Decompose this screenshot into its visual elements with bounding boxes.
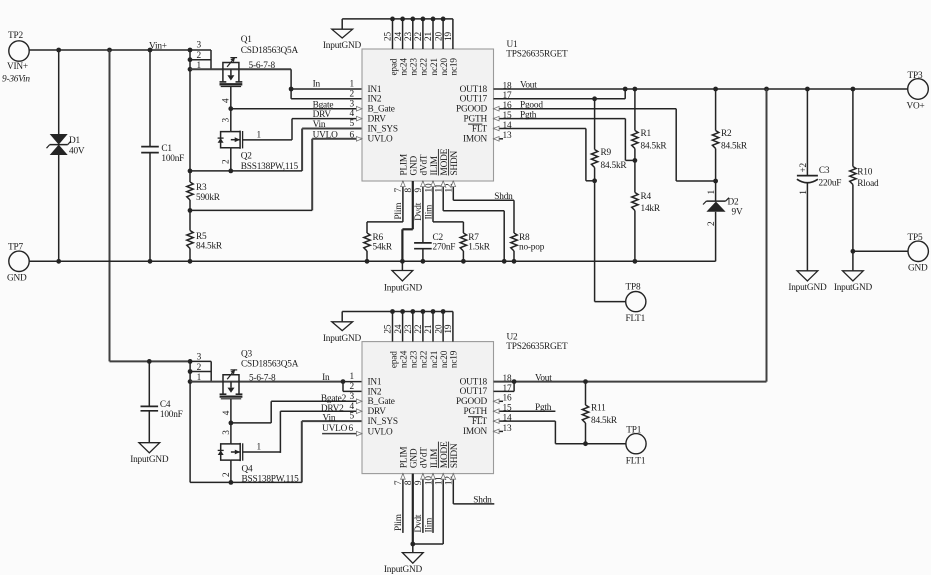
svg-text:SHDN: SHDN: [450, 443, 460, 468]
resistor R1 84.5kR: [632, 89, 668, 160]
svg-text:9: 9: [414, 188, 424, 193]
U2 top pins 25-19 rail to InputGND: [342, 309, 453, 342]
svg-text:TP8: TP8: [626, 282, 641, 292]
svg-text:nc24: nc24: [399, 58, 409, 76]
svg-text:17: 17: [503, 384, 512, 394]
transistor Q2 BSS138PW,115: [218, 130, 299, 172]
svg-text:Pgth: Pgth: [535, 403, 552, 413]
svg-text:SHDN: SHDN: [450, 151, 460, 176]
U2 right pin numbers: [503, 374, 512, 434]
svg-text:16: 16: [503, 394, 512, 404]
svg-text:C3: C3: [819, 166, 830, 176]
svg-text:24: 24: [394, 32, 404, 41]
wire OUT17 to Vout: [494, 89, 626, 101]
svg-text:IMON: IMON: [463, 427, 487, 437]
wire Q3 gate to Bgate2: [222, 399, 234, 444]
resistor R10 Rload: [850, 89, 879, 271]
svg-text:VO+: VO+: [907, 102, 925, 112]
svg-text:14: 14: [503, 414, 512, 424]
svg-text:15: 15: [503, 404, 512, 414]
svg-text:InputGND: InputGND: [323, 334, 362, 344]
svg-text:InputGND: InputGND: [834, 283, 873, 293]
svg-text:+2: +2: [799, 162, 809, 172]
U1 bottom pin numbers: [394, 183, 454, 192]
svg-text:7: 7: [394, 188, 404, 193]
svg-text:18: 18: [503, 81, 512, 91]
svg-text:Q3: Q3: [241, 349, 253, 359]
svg-text:2: 2: [350, 382, 355, 392]
svg-text:VIN+: VIN+: [7, 62, 28, 72]
svg-text:R3: R3: [196, 183, 207, 193]
U2 left pin names: [368, 378, 398, 438]
wire MODE to ground: [443, 181, 504, 261]
wire U2 PGTH net Pgth: [494, 403, 556, 413]
svg-text:8: 8: [404, 480, 414, 485]
wire Q1 gate to Bgate: [222, 87, 234, 132]
wire net In (U2 IN1): [322, 373, 362, 383]
svg-text:5-6-7-8: 5-6-7-8: [249, 61, 276, 71]
wire net In (IN1): [291, 79, 362, 89]
U1 right pin names: [456, 85, 488, 145]
svg-text:Vout: Vout: [535, 373, 552, 383]
svg-text:84.5kR: 84.5kR: [721, 141, 748, 151]
net label Vin+: [149, 41, 167, 51]
svg-text:2: 2: [350, 89, 355, 99]
svg-text:22: 22: [414, 324, 424, 333]
svg-text:epad: epad: [389, 351, 399, 368]
resistor R9 84.5kR: [591, 99, 627, 302]
svg-text:23: 23: [404, 32, 414, 41]
svg-text:24: 24: [394, 324, 404, 333]
svg-text:CSD18563Q5A: CSD18563Q5A: [241, 46, 299, 56]
transistor Q1 pin box (pins 3,2,1): [188, 41, 211, 72]
svg-text:Shdn: Shdn: [473, 496, 492, 506]
ground InputGND (C3): [788, 271, 827, 293]
svg-text:IN_SYS: IN_SYS: [368, 417, 398, 427]
svg-text:4: 4: [222, 98, 232, 103]
svg-text:19: 19: [444, 32, 454, 41]
svg-text:5-6-7-8: 5-6-7-8: [249, 373, 276, 383]
svg-text:InputGND: InputGND: [788, 283, 827, 293]
svg-text:DRV: DRV: [368, 407, 387, 417]
capacitor C2 270nF: [414, 181, 455, 261]
svg-text:R9: R9: [601, 148, 612, 158]
svg-text:IMON: IMON: [463, 135, 487, 145]
capacitor C1 100nF: [141, 50, 184, 261]
svg-text:FLT1: FLT1: [626, 457, 646, 467]
svg-text:dVdT: dVdT: [420, 154, 430, 175]
svg-text:nc19: nc19: [450, 350, 460, 368]
svg-text:25: 25: [384, 32, 394, 41]
svg-text:84.5kR: 84.5kR: [196, 242, 223, 252]
svg-text:InputGND: InputGND: [384, 565, 423, 575]
svg-text:FLT1: FLT1: [626, 314, 646, 324]
svg-text:D2: D2: [728, 198, 740, 208]
svg-text:1: 1: [707, 190, 717, 195]
wire GND rail: [29, 259, 715, 264]
test point TP5 (GND): [853, 233, 929, 274]
wire U2 IMON stub: [494, 430, 504, 432]
svg-text:TPS26635RGET: TPS26635RGET: [506, 342, 568, 352]
test point TP2 (VIN+): [2, 31, 30, 85]
svg-text:InputGND: InputGND: [384, 283, 423, 293]
U1 left pin numbers: [350, 80, 355, 141]
wire net UVLO stub (U2): [322, 424, 362, 434]
svg-text:Pgood: Pgood: [520, 100, 543, 110]
test point TP3 (VO+): [907, 71, 929, 112]
svg-text:GND: GND: [410, 155, 420, 175]
test point TP7 (GND): [7, 243, 29, 284]
svg-text:DRV2: DRV2: [321, 404, 344, 414]
svg-text:TP1: TP1: [626, 425, 641, 435]
resistor R8 no-pop: [511, 200, 545, 261]
wire net UVLO: [312, 130, 362, 210]
svg-text:PGTH: PGTH: [464, 407, 488, 417]
wire left vertical (source rail): [189, 69, 191, 182]
svg-text:R5: R5: [196, 232, 207, 242]
ground InputGND (U1 top): [323, 19, 362, 51]
svg-text:nc20: nc20: [440, 58, 450, 76]
svg-text:4: 4: [350, 402, 355, 412]
svg-text:PLIM: PLIM: [400, 447, 410, 468]
svg-text:epad: epad: [389, 58, 399, 75]
svg-text:5: 5: [350, 412, 355, 422]
svg-text:3: 3: [350, 392, 355, 402]
wire SHDN net Shdn: [453, 181, 514, 202]
svg-text:UVLO: UVLO: [313, 130, 339, 140]
svg-text:TPS26635RGET: TPS26635RGET: [506, 49, 568, 59]
wire U2 OUT17: [494, 382, 515, 392]
svg-text:54kR: 54kR: [373, 242, 393, 252]
svg-text:22: 22: [414, 32, 424, 41]
svg-text:nc23: nc23: [410, 350, 420, 368]
resistor R3 590kR: [187, 182, 221, 203]
svg-text:PGOOD: PGOOD: [456, 397, 488, 407]
svg-text:UVLO: UVLO: [368, 427, 394, 437]
wire U2 SHDN net Shdn: [453, 474, 494, 506]
transistor Q3 CSD18563Q5A: [220, 349, 299, 399]
svg-text:Plim: Plim: [394, 202, 404, 220]
transistor Q3 pin box (pins 3,2,1): [188, 352, 211, 384]
svg-text:DRV: DRV: [313, 110, 332, 120]
svg-text:1: 1: [257, 443, 262, 453]
svg-text:4: 4: [350, 109, 355, 119]
svg-text:GND: GND: [7, 274, 27, 284]
svg-text:20: 20: [434, 324, 444, 333]
svg-text:21: 21: [424, 324, 434, 333]
svg-text:25: 25: [384, 324, 394, 333]
wire net Vin (U2 IN_SYS): [302, 414, 362, 483]
svg-text:PLIM: PLIM: [400, 154, 410, 175]
U2 right pin names: [456, 377, 488, 437]
svg-text:9: 9: [414, 480, 424, 485]
test point TP1 (FLT1): [626, 425, 646, 466]
svg-text:TP3: TP3: [908, 71, 923, 81]
svg-text:4: 4: [222, 410, 232, 415]
svg-text:IN_SYS: IN_SYS: [368, 124, 398, 134]
resistor R2 84.5kR: [712, 89, 748, 181]
op-amp U2 TPS26635RGET body: [362, 333, 568, 474]
svg-text:no-pop: no-pop: [519, 242, 545, 252]
svg-text:15: 15: [503, 111, 512, 121]
wire GND pin 8: [402, 181, 412, 261]
wire U2 IN2: [343, 390, 362, 392]
svg-text:CSD18563Q5A: CSD18563Q5A: [241, 359, 299, 369]
svg-text:dVdT: dVdT: [420, 447, 430, 468]
resistor R7 1.5kR: [460, 222, 491, 261]
wire input rail Vin+: [29, 48, 190, 53]
svg-text:Vin+: Vin+: [149, 41, 167, 51]
wire PGTH net Pgth: [494, 110, 638, 163]
svg-text:2: 2: [197, 51, 202, 61]
svg-text:Ilim: Ilim: [424, 204, 434, 220]
svg-text:C4: C4: [160, 400, 171, 410]
svg-text:R1: R1: [641, 129, 652, 139]
wire Q3 drain row to U2: [190, 381, 343, 383]
diode D1 40V (TVS): [47, 50, 85, 261]
U2 bottom pin numbers: [394, 476, 454, 485]
svg-text:OUT17: OUT17: [460, 387, 488, 397]
svg-text:3: 3: [197, 41, 202, 51]
svg-text:nc21: nc21: [430, 350, 440, 368]
svg-text:23: 23: [404, 324, 414, 333]
U2 top pin names epad nc24-nc19: [389, 350, 459, 368]
svg-text:Ilim: Ilim: [424, 517, 434, 533]
U1 top pin names epad nc24-nc19: [389, 58, 459, 76]
wire U2 ILIM stub: [424, 474, 434, 533]
wire UVLO divider junction: [188, 200, 313, 231]
U2 pin arrows: [0, 0, 1, 1]
wire Vout rail: [494, 81, 908, 92]
U1 pin arrows: [0, 0, 1, 1]
wire IN2: [291, 98, 362, 100]
svg-text:OUT18: OUT18: [460, 377, 488, 387]
svg-text:3: 3: [222, 118, 232, 123]
svg-text:14kR: 14kR: [641, 204, 661, 214]
wire net Vin (IN_SYS): [302, 120, 362, 171]
svg-text:Q4: Q4: [242, 465, 254, 475]
wire ILIM to R7: [424, 181, 463, 222]
svg-text:IN2: IN2: [368, 387, 382, 397]
svg-text:R10: R10: [857, 167, 872, 177]
capacitor C4 100nF: [141, 361, 183, 442]
svg-text:R11: R11: [591, 404, 606, 414]
wire IMON stub: [494, 138, 504, 140]
transistor Q4 BSS138PW,115: [218, 443, 299, 485]
svg-text:In: In: [322, 373, 330, 383]
svg-text:6: 6: [349, 424, 354, 434]
wire U2 GND pin 8: [410, 474, 415, 547]
wire Q2 source row: [188, 148, 303, 174]
svg-text:14: 14: [503, 121, 512, 131]
wire U2 MODE to ground: [413, 474, 443, 544]
svg-text:9V: 9V: [732, 208, 743, 218]
wire U2 FLT to TP1: [494, 421, 626, 446]
transistor Q1 CSD18563Q5A: [220, 35, 299, 87]
svg-text:InputGND: InputGND: [130, 455, 169, 465]
svg-text:IN1: IN1: [368, 85, 382, 95]
svg-text:PGTH: PGTH: [464, 114, 488, 124]
test point TP8 (FLT1): [595, 282, 646, 324]
wire U2 PGOOD stub: [494, 400, 504, 402]
svg-text:Vin: Vin: [323, 414, 336, 424]
ground InputGND (U2 top): [323, 312, 362, 344]
svg-text:Rload: Rload: [857, 179, 879, 189]
ground InputGND (C4): [130, 443, 169, 465]
svg-text:nc19: nc19: [450, 58, 460, 76]
svg-text:Bgate: Bgate: [313, 100, 334, 110]
svg-text:R2: R2: [721, 129, 732, 139]
wire Q4 source row: [190, 460, 302, 485]
svg-text:Dvdt: Dvdt: [414, 514, 424, 532]
svg-text:100nF: 100nF: [160, 410, 183, 420]
resistor R5 84.5kR: [187, 231, 223, 262]
svg-text:Vout: Vout: [520, 81, 537, 91]
svg-text:UVLO: UVLO: [368, 135, 394, 145]
svg-text:OUT17: OUT17: [460, 95, 488, 105]
wire net Bgate: [231, 100, 362, 110]
wire net DRV: [292, 110, 362, 140]
wire U2 dVdT stub: [414, 474, 424, 533]
svg-text:nc22: nc22: [420, 350, 430, 368]
resistor R6 54kR: [364, 222, 393, 261]
svg-text:nc20: nc20: [440, 350, 450, 368]
pin direction arrows: [356, 106, 499, 479]
svg-text:TP2: TP2: [8, 31, 23, 41]
wire In riser to U2: [341, 379, 346, 391]
svg-text:8: 8: [404, 188, 414, 193]
svg-text:Dvdt: Dvdt: [414, 202, 424, 220]
svg-text:PGOOD: PGOOD: [456, 105, 488, 115]
wire PLIM to R6: [367, 181, 404, 222]
diode D2 9V zener: [703, 181, 743, 261]
svg-text:3: 3: [222, 430, 232, 435]
svg-text:19: 19: [444, 324, 454, 333]
svg-text:3: 3: [350, 99, 355, 109]
svg-text:1: 1: [350, 80, 355, 90]
svg-text:FLT: FLT: [472, 124, 488, 134]
svg-text:Q2: Q2: [241, 152, 253, 162]
wire FLT to R9: [494, 129, 597, 184]
svg-text:TP7: TP7: [8, 243, 23, 253]
svg-text:84.5kR: 84.5kR: [601, 161, 628, 171]
svg-text:13: 13: [503, 424, 512, 434]
svg-text:Q1: Q1: [241, 35, 253, 45]
ground InputGND (U1 bottom): [384, 261, 423, 293]
svg-text:Plim: Plim: [394, 513, 404, 531]
svg-text:1: 1: [257, 130, 262, 140]
ground InputGND (U2 bottom): [384, 544, 423, 575]
svg-text:In: In: [313, 79, 321, 89]
svg-text:B_Gate: B_Gate: [368, 397, 395, 407]
svg-text:17: 17: [503, 91, 512, 101]
svg-text:UVLO: UVLO: [322, 424, 348, 434]
svg-text:13: 13: [503, 131, 512, 141]
wire net Bgate2: [231, 394, 362, 423]
U1 top pin numbers: [384, 32, 454, 41]
wire In riser to U1 IN1/IN2: [289, 69, 294, 99]
svg-text:Shdn: Shdn: [494, 192, 513, 202]
svg-text:IN2: IN2: [368, 95, 382, 105]
U1 bottom pin names PLIM GND dVdT ILIM MODE SHDN: [400, 148, 460, 175]
svg-text:D1: D1: [69, 136, 81, 146]
svg-text:GND: GND: [410, 448, 420, 468]
svg-text:2: 2: [707, 221, 717, 226]
U2 bottom pin names: [400, 441, 460, 468]
svg-text:40V: 40V: [69, 147, 85, 157]
svg-text:20: 20: [434, 32, 444, 41]
svg-text:InputGND: InputGND: [323, 41, 362, 51]
svg-text:7: 7: [394, 480, 404, 485]
svg-text:5: 5: [350, 119, 355, 129]
svg-text:3: 3: [197, 352, 202, 362]
wire left vertical lower: [189, 382, 191, 483]
svg-text:GND: GND: [908, 264, 928, 274]
wire Q1 drain row: [190, 68, 291, 70]
U1 top pins 25-19 rail to InputGND: [342, 17, 453, 50]
wire net DRV2: [280, 404, 362, 453]
wire U2 Vout to output rail: [494, 89, 767, 384]
svg-text:nc23: nc23: [410, 58, 420, 76]
svg-text:220uF: 220uF: [819, 179, 842, 189]
U2 left pin numbers: [349, 372, 355, 434]
wire U2 PLIM stub: [394, 474, 404, 533]
U2 top pin numbers: [384, 324, 454, 333]
wire lower input rail: [110, 359, 191, 364]
svg-text:590kR: 590kR: [196, 193, 221, 203]
svg-text:Vin: Vin: [313, 120, 326, 130]
U1 left pin names: [368, 85, 398, 145]
svg-text:B_Gate: B_Gate: [368, 105, 395, 115]
svg-text:FLT: FLT: [472, 417, 488, 427]
svg-text:R4: R4: [641, 192, 652, 202]
U1 right pin numbers: [503, 81, 512, 141]
svg-text:1: 1: [799, 190, 809, 195]
svg-text:1.5kR: 1.5kR: [468, 242, 490, 252]
svg-text:TP5: TP5: [908, 233, 923, 243]
wire branch to lower section: [109, 50, 111, 361]
svg-text:Bgate2: Bgate2: [321, 394, 347, 404]
svg-text:Pgth: Pgth: [520, 110, 537, 120]
svg-text:9-36Vin: 9-36Vin: [2, 75, 30, 85]
svg-text:84.5kR: 84.5kR: [641, 141, 668, 151]
svg-text:1: 1: [350, 372, 355, 382]
wire PGOOD net Pgood: [494, 100, 718, 183]
svg-text:6: 6: [350, 130, 355, 140]
svg-text:21: 21: [424, 32, 434, 41]
svg-text:nc24: nc24: [399, 350, 409, 368]
svg-text:2: 2: [197, 363, 202, 373]
svg-text:100nF: 100nF: [161, 154, 184, 164]
svg-text:nc22: nc22: [420, 58, 430, 76]
ground InputGND (R10): [834, 271, 873, 293]
op-amp U1 TPS26635RGET body: [362, 40, 568, 181]
svg-text:IN1: IN1: [368, 378, 382, 388]
svg-text:16: 16: [503, 101, 512, 111]
resistor R4 14kR: [632, 160, 661, 261]
svg-text:C1: C1: [161, 144, 172, 154]
capacitor C3 220uF: [797, 89, 841, 271]
svg-text:nc21: nc21: [430, 58, 440, 76]
svg-text:84.5kR: 84.5kR: [591, 416, 618, 426]
svg-text:270nF: 270nF: [433, 242, 456, 252]
resistor R11 84.5kR: [582, 382, 618, 444]
svg-text:OUT18: OUT18: [460, 85, 488, 95]
svg-text:DRV: DRV: [368, 115, 387, 125]
